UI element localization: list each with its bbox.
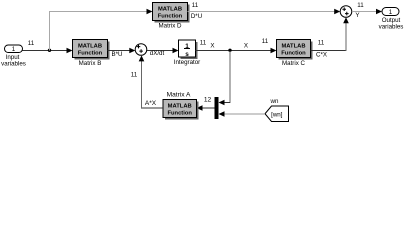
label X (left) [210,43,214,50]
signal width 12 [204,96,212,103]
signal width 11 (Matrix C out) [318,40,325,47]
wire sum2 to outport [352,11,378,13]
svg-text:Matrix D: Matrix D [158,22,182,29]
label Matrix C [282,60,306,67]
svg-text:11: 11 [192,2,199,9]
svg-text:11: 11 [262,38,269,45]
arrow into sum2 [334,9,340,15]
signal width 11 (output) [357,2,364,9]
arrow into Matrix C [271,48,277,54]
svg-text:MATLAB: MATLAB [281,44,305,50]
block Matrix D (MATLAB Function) [153,3,190,23]
svg-text:Function: Function [78,51,103,57]
label Matrix B [79,60,102,67]
svg-text:11: 11 [357,2,364,9]
signal width 11 (Matrix C in) [262,38,269,45]
svg-text:12: 12 [204,96,212,103]
arrow into Matrix B [67,48,73,54]
label X (right) [244,43,248,50]
svg-text:variables: variables [379,24,404,31]
wire Integrator to Matrix C [196,50,273,52]
svg-text:Function: Function [167,111,192,117]
signal width 11 (integrator out) [200,40,207,47]
svg-text:wn: wn [270,98,279,105]
arrow into Integrator [173,48,179,54]
node X junction [228,49,231,52]
label Y [355,12,359,19]
inport 1 Input variables [5,45,23,53]
wire Matrix D to sum2 [188,11,337,13]
sum S1 [135,44,147,56]
svg-text:MATLAB: MATLAB [78,44,102,50]
label Output variables [379,17,404,31]
svg-text:Function: Function [281,51,306,57]
arrow into mux input 1 [219,100,225,106]
svg-text:11: 11 [28,40,35,47]
svg-text:1: 1 [389,9,393,16]
arrow into sum1 [129,48,135,54]
svg-text:1: 1 [12,46,16,53]
wire sum1 to Integrator [147,50,174,52]
svg-text:Matrix C: Matrix C [282,60,306,67]
wire X down to mux input 1 [223,51,230,103]
block Matrix A (MATLAB Function, flipped) [163,100,199,120]
svg-text:Matrix B: Matrix B [79,60,102,67]
svg-text:s: s [185,51,189,58]
svg-text:D*U: D*U [191,13,202,20]
svg-text:B*U: B*U [111,51,122,58]
svg-text:X: X [210,43,214,50]
arrow into sum2 bottom [343,17,349,23]
label C*X [316,52,327,59]
node branch junction [48,49,51,52]
wire Matrix A to sum1 bottom [141,60,163,108]
wire [wn] to mux input 2 [224,113,265,115]
svg-text:Function: Function [158,14,183,20]
svg-text:dX/dt: dX/dt [150,50,165,57]
svg-text:MATLAB: MATLAB [158,7,182,13]
svg-text:A*X: A*X [145,100,157,107]
label B*U [111,51,122,58]
svg-text:MATLAB: MATLAB [168,104,192,110]
svg-text:11: 11 [318,40,325,47]
label Integrator [174,59,200,66]
outport 1 Output variables [382,8,399,16]
svg-text:11: 11 [131,72,138,79]
arrow into outport [376,9,382,15]
block Matrix C (MATLAB Function) [277,40,313,60]
label Matrix D [158,22,182,29]
svg-text:11: 11 [200,40,207,47]
wire input to Matrix B [23,50,69,52]
signal width 11 (Matrix D out) [192,2,199,9]
block Matrix B (MATLAB Function) [73,40,110,60]
svg-text:X: X [244,43,248,50]
svg-text:C*X: C*X [316,52,327,59]
label A*X [145,100,157,107]
svg-text:variables: variables [1,61,26,68]
arrow into Matrix A [197,105,203,111]
label D*U [191,13,202,20]
svg-text:Integrator: Integrator [174,59,200,66]
arrow into Matrix D [147,9,153,15]
wire Matrix C to sum2 [311,22,347,51]
label Matrix A [167,92,191,99]
signal width 11 (A*X wire) [131,72,138,79]
sum S2 [340,6,352,18]
mux [215,97,219,119]
wire branch up to top row [50,12,149,51]
wire Matrix B to sum1 [108,50,132,52]
svg-text:Matrix A: Matrix A [167,92,191,99]
svg-text:[wn]: [wn] [271,112,283,119]
svg-text:Y: Y [355,12,359,19]
block Integrator 1/s [179,40,198,59]
label wn [270,98,279,105]
signal width 11 (input wire) [28,40,35,47]
label dX/dt [150,50,165,57]
arrow into mux input 2 [219,111,225,117]
wire mux to Matrix A [201,107,215,109]
label Input variables [1,54,26,68]
from block [wn] [265,106,289,122]
arrow into sum1 bottom [139,55,145,61]
